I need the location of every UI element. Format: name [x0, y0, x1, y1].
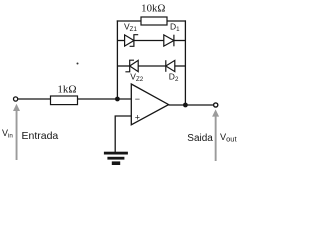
annotation arrow Vin [13, 104, 20, 160]
stray speck [77, 63, 79, 65]
wire: resistor R1 to op-amp inverting input [78, 98, 132, 100]
diode D1 [164, 35, 174, 47]
svg-text:−: − [135, 94, 140, 104]
resistor R1 1kΩ [51, 96, 78, 105]
svg-text:Vout: Vout [220, 132, 237, 144]
input terminal (Entrada) [14, 97, 18, 101]
node B (output junction) [183, 103, 188, 108]
wire: third branch at node A side [117, 65, 129, 67]
zener diode VZ1 [125, 35, 139, 47]
svg-text:Entrada: Entrada [22, 130, 59, 142]
svg-text:Saida: Saida [187, 133, 213, 144]
wire: D1 to right vertical [174, 40, 186, 42]
zener diode VZ2 [125, 60, 138, 72]
wire: between VZ2 and D2 [138, 65, 166, 67]
wire: op-amp output to output terminal [169, 104, 214, 106]
ground [104, 152, 128, 165]
svg-text:Vin: Vin [2, 128, 13, 140]
svg-text:VZ1: VZ1 [124, 22, 137, 34]
diode D2 [166, 60, 175, 72]
resistor R2 10kΩ [141, 17, 167, 25]
wire: top feedback branch (left segment) [117, 20, 141, 22]
wire: second branch at node A side [117, 40, 124, 42]
wire: non-inverting input to ground [115, 116, 131, 153]
output terminal (Saida) [214, 103, 218, 107]
svg-text:1kΩ: 1kΩ [57, 84, 76, 96]
wire: left vertical of feedback network [116, 20, 118, 99]
wire: input terminal to resistor R1 [18, 98, 51, 100]
wire: right vertical of feedback network [184, 20, 186, 105]
annotation arrow Vout [212, 109, 219, 161]
svg-text:D2: D2 [169, 71, 179, 83]
wire: D2 to right vertical [175, 65, 186, 67]
svg-text:10kΩ: 10kΩ [141, 3, 165, 15]
op-amp U1 [131, 84, 168, 125]
svg-text:D1: D1 [170, 22, 180, 34]
wire: between VZ1 and D1 [134, 40, 164, 42]
node A (junction at inverting input) [115, 97, 120, 102]
wire: top feedback branch (right segment) [167, 20, 186, 22]
svg-text:VZ2: VZ2 [130, 72, 143, 84]
svg-text:+: + [135, 112, 140, 122]
